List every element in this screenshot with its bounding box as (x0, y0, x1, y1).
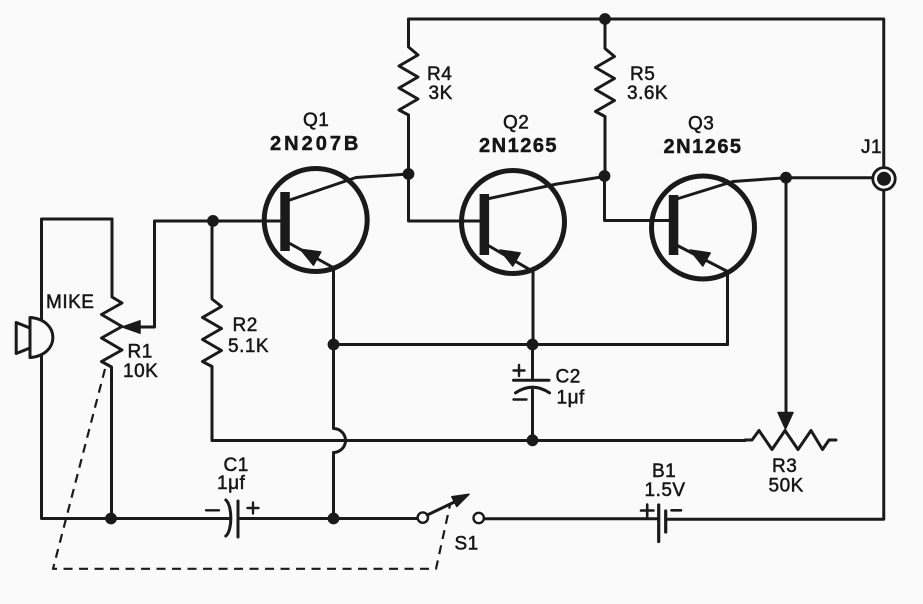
svg-text:3K: 3K (429, 83, 453, 104)
wire C1 to switch S1 (238, 517, 418, 520)
svg-text:10K: 10K (123, 361, 158, 382)
wire Q1 emitter to bottom rail with hop over feedback line (334, 345, 346, 519)
svg-text:1.5V: 1.5V (645, 480, 686, 501)
svg-text:R4: R4 (427, 64, 452, 85)
wire Q3 collector to jack J1 (786, 176, 878, 179)
label B1 polarity plus (641, 505, 654, 517)
R3 wiper arrow (778, 413, 793, 430)
label C2 polarity plus (514, 365, 525, 376)
switch S1 (418, 494, 484, 523)
wire emitter bus (334, 343, 728, 346)
svg-text:2N207B: 2N207B (270, 133, 361, 155)
junction R2 top / Q1 base (207, 215, 219, 227)
potentiometer R1 body (102, 219, 123, 519)
jack J1 (873, 168, 895, 190)
microphone MIKE (16, 318, 53, 358)
svg-text:B1: B1 (652, 461, 676, 482)
label C2 polarity minus (514, 398, 527, 400)
svg-text:1μf: 1μf (557, 388, 586, 409)
svg-text:2N1265: 2N1265 (664, 136, 743, 158)
wire R1 wiper to Q1 base (139, 221, 281, 327)
wire R3 wiper from Q3 collector (785, 178, 788, 413)
wire mike loop: R1 top, left rail, bottom rail to C1 (42, 219, 231, 519)
label B1 polarity minus (672, 509, 682, 512)
wire Q2 collector node to Q3 base (605, 176, 670, 221)
svg-text:R1: R1 (128, 342, 153, 363)
wire feedback line R2 bottom to R3 (212, 439, 745, 442)
svg-text:S1: S1 (455, 534, 479, 555)
svg-text:1μf: 1μf (217, 473, 246, 494)
svg-text:R5: R5 (630, 64, 655, 85)
svg-text:MIKE: MIKE (46, 292, 94, 313)
junction top rail / R5 (599, 13, 611, 25)
resistor R5 (596, 19, 615, 176)
svg-text:C2: C2 (556, 367, 581, 388)
resistor R2 (203, 221, 222, 440)
wire S1 to battery B1 (484, 517, 657, 520)
junction R1 bottom / bottom rail (105, 513, 117, 525)
svg-text:R2: R2 (233, 315, 258, 336)
wire Q1 collector node to Q2 base (409, 174, 481, 221)
resistor R4 (399, 19, 418, 174)
transistor Q3 (652, 176, 787, 345)
svg-text:2N1265: 2N1265 (479, 135, 558, 157)
potentiometer R3 body (745, 431, 836, 450)
junction Q2 emitter / C2 top (527, 339, 539, 351)
svg-text:3.6K: 3.6K (627, 83, 668, 104)
R1 wiper arrow (123, 321, 141, 333)
junction Q1 emitter / bus (328, 339, 340, 351)
svg-text:50K: 50K (769, 476, 804, 497)
junction R4 / Q1 collector (403, 168, 415, 180)
transistor Q1 (264, 169, 408, 345)
junction Q3 collector / R3 wiper (780, 172, 792, 184)
svg-text:5.1K: 5.1K (228, 336, 269, 357)
svg-text:J1: J1 (861, 137, 882, 158)
svg-text:Q2: Q2 (503, 113, 529, 134)
junction R5 / Q2 collector (599, 170, 611, 182)
battery B1 (659, 505, 666, 542)
junction Q1 emitter / bottom rail (328, 513, 340, 525)
junction C2 bottom / feedback line (527, 434, 539, 446)
svg-text:Q1: Q1 (303, 110, 329, 131)
svg-text:Q3: Q3 (688, 114, 714, 135)
capacitor C1 (226, 500, 238, 537)
mechanical link dashed gang R1-S1 (53, 369, 450, 569)
label C1 polarity plus (248, 503, 259, 514)
capacitor C2 (514, 345, 550, 441)
label C1 polarity minus (206, 509, 219, 511)
transistor Q2 (462, 171, 605, 345)
wire top supply rail to J1 (409, 19, 884, 166)
svg-text:R3: R3 (772, 456, 797, 477)
wire battery B1 to right rail up to J1 (668, 191, 884, 519)
